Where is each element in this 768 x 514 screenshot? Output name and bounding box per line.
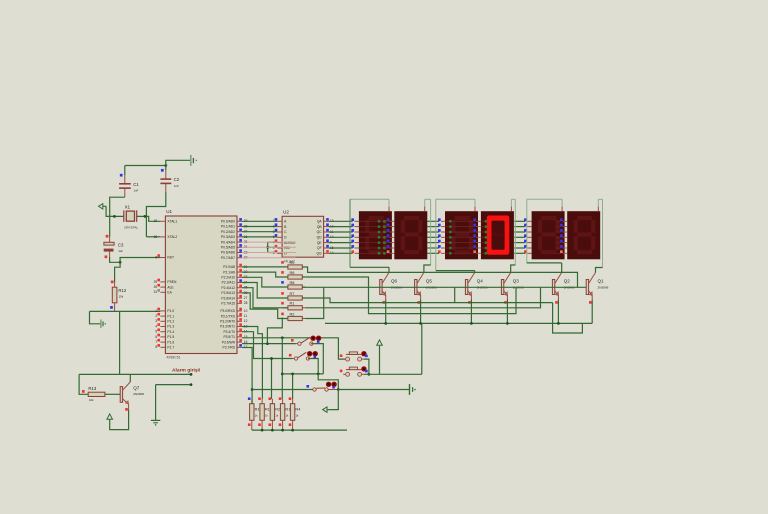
svg-text:P1.0: P1.0	[167, 309, 174, 313]
wire hoop D4 elbow to Q3	[511, 265, 516, 273]
BTN2 toggle ball	[361, 366, 366, 371]
junction dot emitter rail Q4	[470, 322, 473, 325]
wire hoop D3 top	[436, 198, 475, 200]
svg-text:P2.5/A13: P2.5/A13	[221, 291, 235, 295]
svg-text:Q2: Q2	[564, 279, 571, 284]
svg-text:P0.0/AD0: P0.0/AD0	[221, 220, 235, 224]
op-amp U1 AT89C51 body	[165, 216, 237, 354]
wire hoop D6 elbow to Q1	[596, 268, 603, 273]
SW1 toggle balls	[310, 336, 315, 341]
svg-text:P2.2/A10: P2.2/A10	[221, 276, 235, 280]
svg-text:QC: QC	[317, 230, 323, 234]
SW2 state square left	[289, 354, 292, 357]
wire mesh drop to bank	[281, 338, 283, 399]
wire P0.4-P0.7 phantom stubs	[242, 241, 296, 243]
junction dot bank bottom	[271, 429, 274, 432]
wire P2.2 to R8	[242, 277, 288, 287]
svg-text:2: 2	[155, 314, 157, 318]
svg-text:10k: 10k	[119, 295, 124, 299]
wire rail R1 out to Q2 base	[306, 287, 541, 308]
svg-text:P0.5/AD5: P0.5/AD5	[221, 246, 235, 250]
transistor Q1 2N3906	[586, 280, 588, 295]
C2 top state square	[161, 169, 164, 172]
junction dot bank bottom	[281, 429, 284, 432]
transistor Q6 2N3906	[380, 280, 382, 295]
wire P3.4 to switch SW2	[242, 332, 293, 359]
wire P3.7 to bank rail	[242, 348, 252, 401]
BTN1 toggle ball	[361, 351, 366, 356]
svg-text:P0.6/AD6: P0.6/AD6	[221, 251, 235, 255]
svg-text:R13: R13	[88, 386, 96, 391]
transistor Q2 2N3906	[552, 280, 554, 295]
svg-text:X1: X1	[125, 204, 131, 209]
7-segment display D1	[359, 211, 392, 259]
display D5 internal D6 pin squares	[556, 220, 561, 222]
wire rail to ground right	[338, 389, 409, 391]
svg-text:R1: R1	[255, 407, 260, 412]
wire Q4 collector drop	[474, 271, 476, 273]
wire Q4 emitter drop	[470, 300, 472, 324]
capacitor C2	[165, 170, 167, 178]
junction dot mesh cross	[281, 336, 284, 339]
wire bank res5 drop	[292, 374, 294, 399]
wire P1.0 net to ground terminal	[90, 311, 101, 323]
wire alarm net horizontal	[120, 373, 191, 375]
wire P2.5 to R2	[242, 293, 288, 319]
junction dot SW1 feed	[266, 342, 269, 345]
svg-text:C1: C1	[133, 182, 139, 187]
BTN2 state square left	[340, 370, 343, 373]
wire C2 bottom to XTAL2	[146, 192, 165, 237]
junction dot emitter rail Q2	[557, 322, 560, 325]
svg-text:P2.0/A8: P2.0/A8	[223, 265, 235, 269]
svg-text:P3.0/RXD: P3.0/RXD	[220, 309, 235, 313]
transistor Q4 2N3906	[465, 280, 467, 295]
C3 bottom state square	[105, 255, 108, 258]
svg-text:12: 12	[244, 319, 248, 323]
SW3 toggle balls	[326, 382, 331, 387]
switch SW2	[293, 358, 295, 360]
wire hoop D6 top	[598, 198, 602, 200]
svg-text:Q7: Q7	[133, 385, 140, 390]
svg-text:P0.4/AD4: P0.4/AD4	[221, 240, 235, 244]
svg-text:C3: C3	[118, 242, 124, 247]
transistor Q5 2N3906	[415, 280, 417, 295]
U1 right pins with numbers and state squares	[237, 220, 242, 222]
wire P2.3 to R7	[242, 283, 288, 299]
svg-text:11: 11	[244, 314, 248, 318]
switch SW1	[296, 343, 298, 345]
svg-text:QE: QE	[317, 241, 323, 245]
svg-text:C2: C2	[174, 177, 180, 182]
svg-text:2N3906: 2N3906	[598, 286, 609, 290]
svg-text:1: 1	[155, 309, 157, 313]
wire Q5 base tap	[454, 287, 456, 302]
svg-text:P2.7/A15: P2.7/A15	[221, 302, 235, 306]
wire hoop D2 side	[430, 199, 432, 265]
junction dot bank bottom	[291, 429, 294, 432]
ground symbol below Q7	[151, 419, 160, 421]
junction dot low rail	[317, 373, 320, 376]
svg-text:6: 6	[155, 335, 157, 339]
wire Q7 emitter to power	[110, 410, 129, 430]
wire C2 top	[165, 166, 167, 171]
svg-text:3: 3	[155, 319, 157, 323]
junction dot X1 right	[144, 215, 147, 218]
Q6 emitter state square	[383, 301, 386, 304]
svg-text:R7: R7	[290, 291, 295, 296]
wire ground net drop	[155, 385, 157, 420]
svg-text:XTAL2: XTAL2	[167, 235, 177, 239]
svg-text:4: 4	[155, 324, 157, 328]
decoder U2 74LS47 body	[282, 216, 324, 257]
junction dot SW3 right	[337, 388, 340, 391]
svg-text:P1.1: P1.1	[167, 314, 174, 318]
wire BTN2 right to power	[364, 346, 380, 375]
junction dot X1 left	[113, 215, 116, 218]
wire ground net horizontal	[156, 384, 191, 386]
wire hoop D4 side	[514, 199, 516, 265]
wire hoop D5 underrun to Q2	[527, 262, 562, 264]
ground terminal below R12	[100, 320, 102, 329]
svg-text:P2.1/A9: P2.1/A9	[223, 270, 235, 274]
svg-text:3: 3	[273, 251, 275, 255]
wire switch rail	[252, 389, 313, 391]
svg-text:P1.7: P1.7	[167, 346, 174, 350]
svg-text:R4: R4	[295, 407, 301, 412]
wire rail R6 out to Q3 base	[302, 277, 516, 314]
wire emitter rail	[325, 322, 592, 324]
svg-text:CRYSTAL: CRYSTAL	[124, 225, 138, 229]
R12 top state square	[111, 281, 114, 284]
wire hoop D5 side	[526, 199, 528, 263]
wire Q5 emitter drop	[420, 300, 422, 324]
svg-text:QD: QD	[317, 236, 323, 240]
wire power rail to emitter rail	[380, 323, 422, 374]
wire P0.2 to C	[242, 231, 277, 233]
Q4 emitter state square	[468, 301, 471, 304]
wire RST node down to R12	[115, 262, 121, 282]
junction dot RST node	[119, 261, 122, 264]
wire BTN1 right drop	[364, 359, 369, 374]
transistor Q7 2N3906	[120, 387, 122, 403]
wire mesh riser	[267, 318, 282, 344]
junction dot emitter rail Q6	[384, 322, 387, 325]
svg-text:P3.2/INT0: P3.2/INT0	[220, 320, 235, 324]
svg-text:R2: R2	[275, 407, 280, 412]
svg-text:P1.3: P1.3	[167, 325, 174, 329]
wire ground arrow to X1 node	[106, 206, 124, 216]
wire hoop D5 top	[527, 198, 562, 200]
C1 top state square	[120, 174, 123, 177]
junction dot bank rail left	[251, 388, 254, 391]
svg-text:PSEN: PSEN	[167, 280, 177, 284]
svg-text:U1: U1	[166, 209, 172, 214]
wire P0.0 to A	[242, 220, 277, 222]
BTN2 state square	[365, 370, 368, 373]
wire R13 to Q7 base	[105, 393, 120, 395]
SW3 state square left	[307, 385, 310, 388]
wire rail R9 out to Q1 base	[302, 267, 577, 287]
svg-text:QB: QB	[317, 225, 323, 229]
junction dot bank bottom	[261, 429, 264, 432]
svg-text:P1.5: P1.5	[167, 335, 174, 339]
wire C3 to RST node	[110, 257, 121, 263]
junction dot res5 feed	[291, 373, 294, 376]
wire bank bottom rail	[252, 429, 347, 431]
wire sw3 up line	[318, 374, 338, 390]
wire hoop D1 underrun to Q6	[350, 266, 389, 268]
Q2 emitter state square	[555, 301, 558, 304]
capacitor C3 polarized	[109, 237, 111, 243]
svg-text:P3.1/TXD: P3.1/TXD	[221, 314, 236, 318]
svg-text:RST: RST	[167, 256, 174, 260]
svg-text:2N3906: 2N3906	[133, 392, 144, 396]
wire Q7 collector up	[129, 374, 131, 382]
SW1 state square	[317, 340, 320, 343]
C3 top state square	[106, 235, 109, 238]
svg-text:R2: R2	[290, 311, 295, 316]
wire P1.0 net horizontal	[90, 310, 161, 312]
svg-text:P2.3/A11: P2.3/A11	[222, 281, 235, 285]
svg-text:P0.7/AD7: P0.7/AD7	[221, 256, 235, 260]
transistor Q3 2N3906	[501, 280, 503, 295]
svg-text:R8: R8	[290, 280, 295, 285]
svg-text:31: 31	[154, 290, 158, 294]
svg-text:P3.4/T0: P3.4/T0	[223, 330, 235, 334]
wire hoop D6 side	[602, 199, 604, 267]
junction dot emitter rail Q3	[506, 322, 509, 325]
svg-text:Q5: Q5	[426, 279, 433, 284]
svg-text:P2.4/A12: P2.4/A12	[221, 286, 235, 290]
svg-text:P1.2: P1.2	[167, 320, 174, 324]
wire hoop D1 top	[350, 198, 389, 200]
svg-text:10: 10	[244, 309, 248, 313]
SW1 state square left	[291, 339, 294, 342]
push button BTN2	[343, 373, 345, 375]
ground arrow left of X1	[99, 204, 103, 209]
svg-text:19: 19	[154, 219, 158, 223]
wire Q3 emitter drop	[506, 300, 508, 324]
wire low rail	[282, 373, 323, 375]
ground symbol right	[409, 384, 411, 395]
svg-text:10k: 10k	[89, 398, 94, 402]
svg-text:Q4: Q4	[477, 279, 484, 284]
svg-text:P1.4: P1.4	[167, 330, 174, 334]
wire Q2 emitter drop	[557, 300, 559, 324]
svg-text:1nF: 1nF	[174, 184, 179, 188]
wire bank R10 feed	[271, 359, 273, 399]
svg-text:Q3: Q3	[513, 279, 520, 284]
svg-text:BI/RBO: BI/RBO	[284, 241, 296, 245]
svg-text:P1.6: P1.6	[167, 340, 174, 344]
svg-text:AT89C51: AT89C51	[166, 356, 180, 360]
wire X1 right to XTAL1	[137, 216, 161, 221]
svg-text:9: 9	[155, 255, 157, 259]
7-segment display D4	[481, 211, 514, 259]
wire rail to ground terminal	[166, 160, 191, 165]
svg-text:P3.3/INT1: P3.3/INT1	[220, 325, 235, 329]
svg-text:30: 30	[154, 285, 158, 289]
svg-text:P3.5/T1: P3.5/T1	[223, 335, 235, 339]
wire P1.0 net long drop	[119, 311, 121, 374]
display D1 internal bus taps and D2 pin squares	[359, 220, 388, 222]
display D4 internal taps	[481, 220, 486, 222]
power arrow buttons	[377, 340, 383, 345]
7-segment display D6	[567, 211, 600, 259]
svg-text:R12: R12	[118, 288, 126, 293]
R13 state square	[82, 390, 85, 393]
Q7 emitter state square	[125, 408, 128, 411]
svg-text:Q1: Q1	[598, 279, 605, 284]
wire hoop D2 elbow to Q5	[424, 265, 431, 273]
junction dot alarm net end	[190, 373, 193, 376]
wire base line common	[302, 286, 586, 288]
junction dot C2 top	[164, 164, 167, 167]
wire hoop D4 top	[511, 198, 515, 200]
ground arrow bottom	[323, 407, 327, 412]
wire alarm left seg	[79, 373, 120, 375]
Q1 emitter state square	[589, 301, 592, 304]
resistors R1 R11 R2 R10 R4 pull-down bank	[251, 399, 253, 404]
resistor R13	[88, 392, 105, 396]
7-segment display D2	[394, 211, 427, 259]
svg-text:18: 18	[154, 235, 158, 239]
capacitor C1	[124, 175, 126, 183]
svg-text:P3.7/RD: P3.7/RD	[223, 346, 236, 350]
svg-text:5: 5	[155, 330, 157, 334]
R12 bottom state square	[110, 306, 113, 309]
svg-text:P3.6/WR: P3.6/WR	[222, 340, 236, 344]
svg-text:R9: R9	[290, 260, 295, 265]
svg-text:R6: R6	[290, 270, 295, 275]
switch SW3	[313, 388, 316, 391]
wire P3.3 to bank	[242, 327, 262, 399]
BTN1 state square left	[340, 354, 343, 357]
wire Q6 emitter drop	[385, 300, 387, 324]
svg-text:Q6: Q6	[391, 279, 398, 284]
wire to R13	[79, 374, 88, 394]
7-segment display D5	[532, 211, 565, 259]
wire Q2 collector drop	[561, 263, 563, 273]
wire hoop D3 underrun to Q4	[436, 270, 475, 272]
wire C1 bottom to X1 node	[110, 197, 125, 236]
svg-text:27: 27	[244, 296, 248, 300]
wire P2.4 to R1	[242, 288, 288, 308]
junction dot emitter rail Q5	[419, 322, 422, 325]
resistors R9 R6 R8 R7 R1 R2 base resistor stack	[283, 266, 288, 268]
crystal X1	[123, 210, 125, 222]
svg-text:QA: QA	[317, 220, 323, 224]
7-segment display D3	[445, 211, 478, 259]
push button BTN1	[343, 358, 345, 360]
svg-text:P0.3/AD3: P0.3/AD3	[221, 235, 235, 239]
U1 left pins with numbers and state squares	[160, 220, 165, 222]
junction dot SW2 feed	[270, 357, 273, 360]
wire hook to emitter rail	[553, 303, 583, 333]
display common anode top pin stubs	[388, 207, 390, 212]
resistor R12	[114, 282, 116, 287]
SW3 state square	[332, 386, 335, 389]
wire XTAL2 stub	[146, 236, 160, 238]
Q5 emitter state square	[417, 301, 420, 304]
svg-text:P0.2/AD2: P0.2/AD2	[221, 230, 235, 234]
svg-text:ALE: ALE	[167, 285, 174, 289]
wire P0.1 to B	[242, 226, 277, 228]
junction dot U2 bracket	[266, 246, 269, 249]
svg-text:P2.6/A14: P2.6/A14	[221, 296, 235, 300]
display D3 internal bus taps and D4 pin squares	[445, 220, 475, 222]
ground terminal top right	[190, 155, 192, 166]
wire SW2 right drop	[308, 359, 318, 374]
wire hoop D3 side	[435, 199, 437, 270]
wire RST node to RST pin	[120, 258, 160, 263]
power arrow bottom left	[107, 414, 113, 419]
svg-text:1nF: 1nF	[134, 189, 139, 193]
wire C1 top	[124, 166, 126, 176]
svg-text:QF: QF	[317, 246, 322, 250]
svg-text:29: 29	[154, 280, 158, 284]
wire Q1 emitter drop	[591, 300, 593, 324]
wire SW3 ground arrow drop	[329, 390, 338, 410]
wire bank left drop	[251, 401, 253, 404]
U2 pins with numbers and state squares	[277, 220, 282, 222]
wire segment bus QA-QG to displays	[329, 220, 353, 222]
junction dot mesh low	[281, 373, 284, 376]
wire SW1 right drop	[311, 344, 323, 374]
junction dot ground net end	[190, 383, 193, 386]
svg-text:1uF: 1uF	[118, 249, 123, 253]
wire hoop D1 side	[349, 199, 351, 267]
svg-text:QG: QG	[316, 252, 322, 256]
svg-text:XTAL1: XTAL1	[167, 220, 177, 224]
wire P3.6 to switch SW1	[242, 343, 296, 345]
BTN1 state square	[365, 355, 368, 358]
wire P3.5 to buttons	[242, 338, 345, 359]
svg-text:Alarm girişi!: Alarm girişi!	[172, 367, 201, 373]
wire U2 LT/RBI/BI bracket	[268, 242, 277, 252]
wire P2.1 to R6	[242, 272, 288, 277]
wire P0.3 to D	[242, 236, 277, 238]
Q3 emitter state square	[504, 301, 507, 304]
svg-text:U2: U2	[283, 210, 289, 215]
SW2 state square	[314, 356, 317, 359]
svg-text:28: 28	[244, 301, 248, 305]
wire hoop D2 top	[425, 198, 431, 200]
junction dot BTN2 right	[368, 373, 371, 376]
wire top rail C1/C2 to power	[125, 165, 166, 167]
svg-text:R1: R1	[290, 301, 295, 306]
SW2 toggle balls	[307, 351, 312, 356]
wire P2.0 to R9	[242, 266, 288, 268]
wire rail R7 out to Q5	[302, 298, 552, 303]
svg-text:8: 8	[155, 345, 157, 349]
wire Q6 collector drop	[388, 267, 390, 272]
svg-text:7: 7	[155, 340, 157, 344]
svg-text:P0.1/AD1: P0.1/AD1	[221, 225, 235, 229]
wire rail R2 out to Q6 base	[306, 287, 324, 318]
